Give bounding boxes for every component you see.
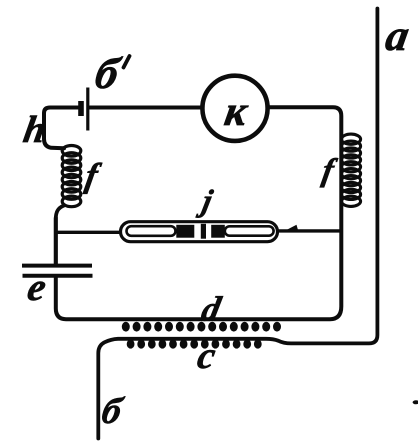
wire battery to bell K	[90, 106, 201, 110]
coherer right electrode rod	[225, 226, 274, 235]
wire coil f left bottom to left vertical	[56, 206, 64, 265]
svg-text:j: j	[195, 183, 216, 218]
coil d (15 bead loops under bottom wire)	[122, 322, 281, 332]
prime of b'	[124, 56, 130, 68]
coil c wire with ground wire b and antenna line a	[98, 9, 377, 439]
svg-text:б: б	[98, 391, 126, 432]
svg-text:c: c	[194, 335, 218, 377]
speck bottom right	[413, 400, 418, 404]
coherer left electrode rod	[127, 226, 176, 236]
wire left vertical to coherer j	[56, 231, 121, 234]
coherer j outer tube	[121, 222, 278, 242]
battery b' long thin plate	[86, 88, 89, 131]
capacitor e bottom plate	[23, 274, 93, 278]
svg-text:f: f	[320, 152, 340, 188]
svg-text:f: f	[83, 157, 105, 195]
wire coherer j to right vertical	[277, 229, 341, 232]
svg-text:б: б	[91, 48, 125, 97]
wire left vertical into coherer junction	[54, 218, 58, 264]
svg-text:a: a	[382, 10, 413, 60]
battery b' short thick plate	[78, 101, 84, 116]
arrow tip right of coherer	[283, 225, 299, 232]
coil c (13 bead loops)	[127, 339, 262, 348]
bell K circle	[202, 76, 267, 141]
wire h bracket (top-left corner to coil)	[44, 108, 78, 149]
coherer right block	[211, 225, 225, 238]
wire bell K to right vertical, down right side, bottom wire, up to capacitor	[56, 107, 342, 319]
svg-text:e: e	[24, 265, 49, 309]
coherer left block	[176, 225, 194, 238]
capacitor e top plate	[22, 264, 92, 268]
coherer middle bar	[201, 224, 206, 239]
coil f left (8 loops)	[62, 146, 81, 207]
coil f right (10 loops)	[341, 134, 360, 206]
